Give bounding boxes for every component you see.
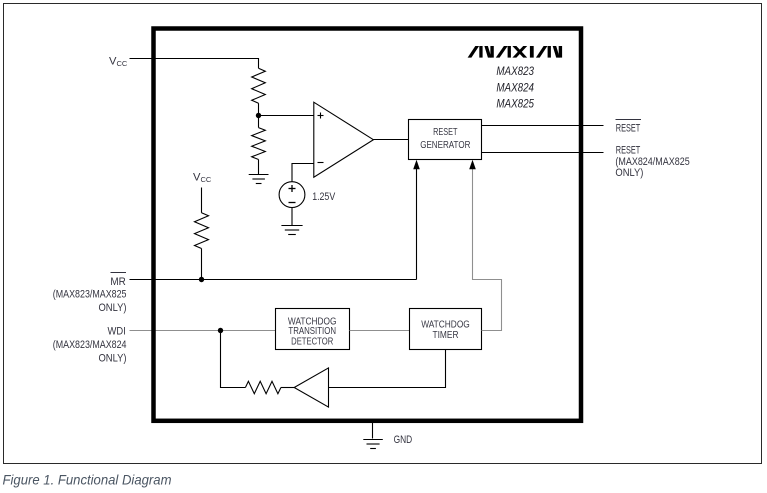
- wire WDI junction down to buffer row: [221, 331, 246, 388]
- pin + of U1: [318, 113, 324, 119]
- svg-text:ONLY): ONLY): [99, 353, 127, 365]
- block WATCHDOG TRANSITION DETECTOR: [276, 309, 350, 350]
- svg-text:TRANSITION: TRANSITION: [288, 326, 336, 337]
- svg-text:1.25V: 1.25V: [312, 191, 336, 203]
- svg-text:WATCHDOG: WATCHDOG: [421, 319, 470, 330]
- buffer U2: [294, 368, 328, 407]
- svg-text:WDI: WDI: [108, 326, 126, 338]
- wire R4 to buffer output: [281, 387, 294, 389]
- block RESET GENERATOR: [409, 120, 482, 160]
- voltage source V1 1.25V: [279, 182, 305, 208]
- pin - of U1: [318, 162, 324, 164]
- svg-text:(MAX823/MAX824: (MAX823/MAX824: [53, 339, 127, 351]
- svg-text:MAX825: MAX825: [496, 97, 534, 111]
- resistor R1: [252, 68, 266, 103]
- wire RESET output: [482, 152, 604, 154]
- wire MR to reset generator: [416, 169, 418, 280]
- svg-text:DETECTOR: DETECTOR: [291, 337, 333, 348]
- svg-text:TIMER: TIMER: [433, 330, 459, 341]
- wire timer to reset generator: [473, 169, 502, 331]
- resistor R2: [252, 128, 266, 160]
- net label MR (overline): [111, 272, 127, 274]
- resistor R3: [195, 213, 209, 249]
- svg-text:GENERATOR: GENERATOR: [420, 140, 470, 151]
- svg-text:RESET: RESET: [616, 123, 641, 135]
- wire U1 output to reset generator: [373, 139, 408, 141]
- resistor R4: [245, 381, 281, 393]
- svg-text:GND: GND: [394, 434, 413, 446]
- svg-text:MAX824: MAX824: [496, 80, 534, 94]
- svg-text:Figure 1. Functional Diagram: Figure 1. Functional Diagram: [3, 472, 172, 487]
- wire node A to comparator +: [259, 115, 314, 117]
- wire MR line: [130, 279, 417, 281]
- junction MR pull-up: [199, 277, 204, 282]
- wire R1 to node A: [258, 103, 260, 115]
- svg-text:ONLY): ONLY): [99, 302, 127, 314]
- wire VCC1 to divider: [130, 59, 259, 69]
- block WATCHDOG TIMER: [410, 309, 482, 350]
- svg-text:RESET: RESET: [433, 127, 458, 138]
- wire detector to timer: [350, 330, 410, 332]
- svg-text:MAX823: MAX823: [496, 64, 534, 78]
- minus mark of V1: [289, 202, 296, 204]
- svg-text:(MAX823/MAX825: (MAX823/MAX825: [53, 289, 127, 301]
- svg-text:RESET: RESET: [616, 144, 641, 156]
- arrowhead into reset generator left: [413, 160, 420, 169]
- junction WDI: [218, 328, 223, 333]
- svg-text:MR: MR: [110, 276, 125, 288]
- wire VCC2 to R3: [201, 188, 203, 213]
- wire R3 to MR line: [201, 249, 203, 280]
- junction node A: [256, 113, 261, 118]
- net label RESET (overline): [616, 119, 642, 121]
- MAXIM logo: [468, 46, 562, 58]
- wire WDI line: [130, 330, 276, 332]
- ground below R2: [249, 160, 269, 184]
- op-amp U1 comparator: [314, 102, 374, 177]
- wire RESET output (active low): [482, 125, 604, 127]
- ground pin GND: [363, 422, 383, 448]
- arrowhead into reset generator right: [469, 160, 476, 169]
- IC boundary MAX823/824/825: [154, 29, 582, 421]
- wire buffer input from timer: [329, 350, 446, 388]
- wire node A to R2: [258, 116, 260, 128]
- svg-text:ONLY): ONLY): [615, 167, 643, 179]
- wire U1 minus input: [292, 164, 314, 182]
- ground below V1: [281, 208, 302, 235]
- plus mark of V1: [289, 185, 296, 192]
